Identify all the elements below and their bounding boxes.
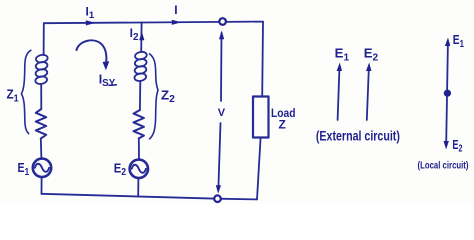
arrowhead V down xyxy=(216,185,221,193)
arrowhead I2 up xyxy=(139,32,144,41)
svg-text:I2: I2 xyxy=(130,26,139,43)
arrowhead V up xyxy=(219,31,224,40)
svg-text:Z: Z xyxy=(279,118,286,132)
wire left branch between coil and resistor xyxy=(40,84,42,109)
arrowhead E1 external xyxy=(337,63,342,72)
junction dot local xyxy=(444,90,451,97)
resistor Z2 zigzag xyxy=(134,110,144,138)
load Z rectangle xyxy=(253,97,269,138)
wire load branch upper xyxy=(261,22,264,97)
ISY circulating arc xyxy=(77,40,107,61)
wire middle branch to source xyxy=(138,138,140,159)
arrowhead I xyxy=(172,20,182,25)
arrowhead ISY xyxy=(103,61,110,70)
brace Z2 xyxy=(150,54,158,139)
wire middle branch between coil and resistor xyxy=(139,81,141,110)
node top xyxy=(219,18,226,25)
svg-text:I1: I1 xyxy=(86,5,95,22)
wire middle branch upper xyxy=(140,22,142,52)
svg-text:Z1: Z1 xyxy=(7,87,20,105)
svg-text:E2: E2 xyxy=(364,46,379,64)
svg-text:E1: E1 xyxy=(18,160,30,178)
svg-text:(External circuit): (External circuit) xyxy=(316,127,400,143)
inductor Z2 coil xyxy=(134,51,148,82)
svg-text:E1: E1 xyxy=(453,32,465,50)
arrowhead local down xyxy=(444,141,449,150)
wire V measure lower xyxy=(218,123,220,188)
wire top horizontal xyxy=(44,22,263,24)
wire left branch to source xyxy=(40,139,43,159)
node bottom xyxy=(214,195,221,202)
phasor E1 external arrow shaft xyxy=(338,69,340,120)
wire left branch upper xyxy=(43,23,45,55)
resistor Z1 zigzag xyxy=(36,109,46,139)
wire load branch lower xyxy=(257,138,261,200)
phasor local line xyxy=(446,44,448,143)
wire bottom horizontal xyxy=(42,194,258,200)
phasor E2 external arrow shaft xyxy=(367,69,369,120)
svg-text:I: I xyxy=(174,3,177,17)
svg-text:E2: E2 xyxy=(114,160,127,178)
source E1 circle xyxy=(33,159,51,177)
wire V measure upper xyxy=(220,33,223,101)
source E1 sine xyxy=(35,164,49,172)
wire middle branch bottom xyxy=(137,178,139,197)
brace Z1 xyxy=(21,50,30,133)
source E2 circle xyxy=(130,160,148,178)
svg-text:V: V xyxy=(218,107,226,119)
inductor Z1 coil xyxy=(35,54,49,85)
svg-text:ISY: ISY xyxy=(99,72,116,89)
svg-text:E1: E1 xyxy=(335,46,350,64)
arrowhead local up xyxy=(445,38,450,47)
arrowhead E2 external xyxy=(366,63,371,72)
wire left branch bottom xyxy=(41,177,43,194)
arrowhead I1 xyxy=(86,20,96,25)
svg-text:Z2: Z2 xyxy=(161,87,175,105)
strike through Y of ISY xyxy=(108,84,117,87)
svg-text:E2: E2 xyxy=(452,137,462,155)
svg-text:(Local circuit): (Local circuit) xyxy=(418,159,469,171)
source E2 sine xyxy=(132,165,146,173)
